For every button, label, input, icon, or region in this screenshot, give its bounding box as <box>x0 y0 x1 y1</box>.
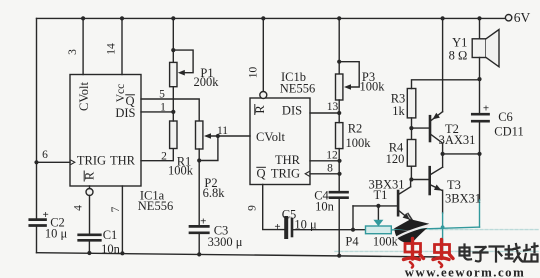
wire pin 1 DIS <box>141 111 173 113</box>
svg-text:12: 12 <box>326 150 338 162</box>
wire T1 collector to junction <box>410 180 412 187</box>
wire C5 to P4 <box>292 229 366 231</box>
svg-text:11: 11 <box>217 125 228 137</box>
svg-text:8 Ω: 8 Ω <box>449 49 468 63</box>
svg-text:1: 1 <box>160 102 166 114</box>
svg-text:100k: 100k <box>346 136 372 150</box>
node T2 emitter rail junction <box>441 16 445 20</box>
svg-text:9: 9 <box>247 205 259 211</box>
pin 6 trigger arrowhead <box>71 160 75 164</box>
node output right junction <box>477 152 481 156</box>
pin 8 trigger arrowhead <box>305 171 309 176</box>
svg-text:1k: 1k <box>392 104 405 118</box>
svg-text:NE556: NE556 <box>280 82 315 96</box>
potentiometer P4 100k <box>366 226 392 234</box>
svg-text:THR: THR <box>110 154 136 168</box>
wire R3 top to speaker node <box>412 80 480 89</box>
svg-text:TRIG: TRIG <box>271 167 300 181</box>
svg-text:200k: 200k <box>194 75 220 89</box>
capacitor C4 10n <box>330 191 348 194</box>
wire C4 to ground rail <box>338 198 340 256</box>
node R3 R4 T2 base junction <box>409 126 413 130</box>
node R4 T3 base T1 collector junction <box>409 177 413 181</box>
node pin1 R1 P1 junction <box>171 110 175 114</box>
watermark chongchong red glyph 2 <box>433 240 453 268</box>
resistor R2 100k <box>336 123 343 149</box>
svg-text:+: + <box>483 103 489 115</box>
6V terminal <box>505 15 511 21</box>
node speaker C6 R3 junction <box>477 77 481 81</box>
wire pin 14 Vcc to rail <box>121 18 123 74</box>
node pin14 rail junction <box>120 16 124 20</box>
svg-text:10: 10 <box>248 67 260 79</box>
svg-text:Q: Q <box>256 167 265 181</box>
svg-text:+: + <box>200 216 206 228</box>
node pin13 junction <box>337 111 341 115</box>
node C1 ground junction <box>87 251 91 255</box>
node pin3 rail junction <box>81 16 85 20</box>
node pin12 junction <box>337 159 341 163</box>
svg-text:TRIG: TRIG <box>77 154 106 168</box>
wire output coupling to P4 right <box>391 227 479 230</box>
P2 wiper arrowhead <box>204 133 211 139</box>
wire C1 to ground rail <box>88 240 90 253</box>
watermark graduation cap logo <box>394 214 430 244</box>
svg-text:3300 μ: 3300 μ <box>208 235 243 249</box>
svg-text:10n: 10n <box>101 242 121 256</box>
resistor R4 120 <box>407 140 416 167</box>
node P1 rail junction <box>171 16 175 20</box>
svg-text:T3: T3 <box>447 178 461 192</box>
svg-text:7: 7 <box>110 206 122 212</box>
capacitor C2 <box>30 218 46 221</box>
node pin6 left rail junction <box>34 160 38 164</box>
potentiometer P3 100k <box>338 18 340 74</box>
svg-text:P4: P4 <box>345 234 359 248</box>
potentiometer P2 6.8k <box>196 121 203 149</box>
wire pin 4 to C1 <box>89 186 91 235</box>
svg-text:3: 3 <box>67 49 79 55</box>
wire pin 7 to ground rail <box>121 186 123 253</box>
P3 wiper arrowhead <box>344 84 351 90</box>
svg-text:2: 2 <box>161 151 167 163</box>
svg-text:CD11: CD11 <box>494 125 523 139</box>
node speaker rail junction <box>477 16 481 20</box>
wire output node <box>443 153 480 155</box>
svg-text:4: 4 <box>73 205 85 211</box>
capacitor C5 10u <box>284 218 288 237</box>
wire pin 13 DIS <box>310 112 339 114</box>
svg-text:6: 6 <box>42 149 48 161</box>
svg-text:8: 8 <box>327 163 333 175</box>
svg-text:CVolt: CVolt <box>256 130 285 144</box>
wire speaker bottom <box>479 58 481 115</box>
svg-text:NE556: NE556 <box>138 199 173 213</box>
svg-text:T1: T1 <box>374 188 388 202</box>
capacitor C3 3300u <box>190 225 208 228</box>
wire P2 bottom to C3 <box>198 149 200 226</box>
svg-text:+: + <box>274 221 280 233</box>
node pin10 rail junction <box>261 16 265 20</box>
watermark chongchong red glyph 1 <box>404 239 424 268</box>
wire pin 2 THR to R1 bottom <box>141 149 173 161</box>
node T3 emitter wire crossing <box>441 225 445 229</box>
svg-text:10 μ: 10 μ <box>45 227 68 241</box>
svg-text:3BX31: 3BX31 <box>445 192 481 206</box>
svg-text:6V: 6V <box>514 10 531 25</box>
wire T1 base branch down to C5 wire <box>352 206 354 230</box>
svg-text:3AX31: 3AX31 <box>439 133 476 147</box>
resistor R3 1k <box>407 89 416 118</box>
node pin8 junction <box>337 172 341 176</box>
op-amp U2 IC1b NE556 box <box>250 98 310 185</box>
wire T1 base <box>353 205 397 207</box>
node P3 loop junction <box>337 60 341 64</box>
capacitor C6 CD11 <box>472 113 488 116</box>
node P1 loop junction <box>171 48 175 52</box>
pin 4 reset circle IC1a <box>86 189 93 196</box>
transistor Q1 T1 3BX31 <box>397 191 400 215</box>
svg-text:+: + <box>43 209 49 221</box>
speaker Y1 wire from rail <box>479 18 481 38</box>
wire T2 emitter to rail <box>442 18 444 111</box>
svg-text:100k: 100k <box>168 163 194 177</box>
node output left junction <box>441 152 445 156</box>
svg-text:5: 5 <box>159 89 165 101</box>
wire T3 collector to output node <box>442 154 444 167</box>
svg-text:C1: C1 <box>103 228 118 242</box>
op-amp U1 IC1a NE556 box <box>70 75 141 187</box>
svg-text:10 μ: 10 μ <box>294 218 317 232</box>
wire C3 to ground rail <box>198 233 200 255</box>
wire pin 6 TRIG from left rail <box>37 161 71 163</box>
node P3 rail junction <box>337 16 341 20</box>
watermark underline artifact <box>335 250 538 252</box>
svg-text:10n: 10n <box>315 200 335 214</box>
wire P1 wiper loop <box>173 50 193 73</box>
transistor Q2 T2 3AX31 <box>429 116 432 141</box>
svg-text:R2: R2 <box>348 122 363 136</box>
wire R3 bottom to T2 base <box>411 118 429 140</box>
node C4 ground junction <box>337 254 341 258</box>
svg-text:DIS: DIS <box>282 104 302 118</box>
wire pin 8 TRIG <box>310 173 340 175</box>
wire pin 9 to C5 <box>263 185 285 230</box>
teal tinted wires under watermark <box>335 154 538 257</box>
svg-text:6.8k: 6.8k <box>203 186 226 200</box>
svg-text:100k: 100k <box>373 235 399 249</box>
wire pin 5 Q output to P2 top <box>141 99 199 121</box>
wire pin 3 to rail <box>82 18 84 74</box>
potentiometer P1 200k <box>172 18 174 62</box>
node C3 ground junction <box>197 252 201 256</box>
svg-text:DIS: DIS <box>115 106 135 120</box>
svg-text:C6: C6 <box>498 110 513 124</box>
svg-text:120: 120 <box>386 152 405 166</box>
svg-text:THR: THR <box>275 153 301 167</box>
capacitor C1 <box>79 233 101 236</box>
svg-text:14: 14 <box>106 43 118 55</box>
node P2 wiper junction <box>216 134 220 138</box>
wire T3 emitter to ground rail <box>442 190 444 213</box>
wire pin 12 THR <box>310 160 340 162</box>
loudspeaker Y1 8ohm <box>472 39 486 58</box>
wire top supply rail <box>37 17 506 19</box>
wire T2 collector to output node <box>442 143 444 154</box>
svg-text:100k: 100k <box>360 80 386 94</box>
wire bottom ground rail <box>37 253 444 257</box>
wire left rail <box>36 18 38 252</box>
wire P2 wiper to pin 11 <box>207 135 251 137</box>
P4 wiper stub <box>377 206 379 220</box>
node T1 base wiper junction <box>376 204 380 208</box>
svg-text:Y1: Y1 <box>452 36 467 50</box>
wire C6 bottom to output node <box>479 121 481 154</box>
wire P3 wiper loop <box>339 62 359 87</box>
pin 10 reset circle IC1b <box>260 92 267 99</box>
P4 wiper arrow <box>373 220 383 227</box>
watermark text dianzi xiazai zhan <box>460 244 538 262</box>
wire P2 wiper return <box>199 136 218 161</box>
svg-text:13: 13 <box>327 101 339 113</box>
transistor Q3 T3 3BX31 <box>428 167 431 194</box>
svg-text:www.eeworm.com: www.eeworm.com <box>405 266 526 278</box>
wire pin 10 to rail <box>262 18 264 91</box>
resistor R1 100k <box>170 121 177 149</box>
P1 wiper arrowhead <box>178 70 185 76</box>
wire C6 line down segment <box>479 154 481 200</box>
svg-text:CVolt: CVolt <box>77 82 91 111</box>
node P2 bottom junction <box>197 158 201 162</box>
node C5 wire junction <box>351 228 355 232</box>
wire R4 bottom to T3 base junction <box>411 166 428 179</box>
node pin7 ground junction <box>120 251 124 255</box>
